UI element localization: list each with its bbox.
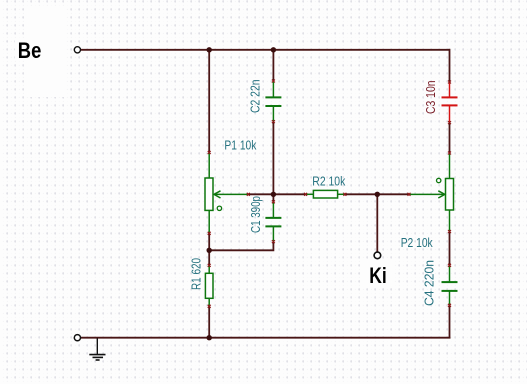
potentiometer P1	[205, 151, 250, 235]
C2 pin marker bottom	[272, 120, 275, 123]
C2 pin marker top	[272, 80, 275, 83]
svg-text:Ki: Ki	[369, 263, 387, 288]
C1 pin marker bottom	[272, 240, 275, 243]
junction node mid rail / C1-C2	[271, 192, 276, 197]
svg-text:C3 10n: C3 10n	[423, 81, 438, 115]
junction node at top rail / P1 branch	[207, 47, 212, 52]
wire bottom rail	[81, 337, 451, 339]
R1 pin marker bottom	[208, 305, 211, 308]
svg-text:C2 22n: C2 22n	[248, 80, 263, 114]
ground	[89, 338, 105, 360]
wire P2 bottom to C4 top	[449, 232, 451, 266]
wire mid junction to C1	[272, 194, 274, 202]
R2 pin marker right	[343, 193, 346, 196]
P1 pin marker wiper	[247, 193, 250, 196]
capacitor C1	[265, 200, 281, 243]
terminal Ki (output)	[374, 252, 381, 259]
P2 pin marker wiper	[408, 193, 411, 196]
capacitor C3 (highlighted red)	[442, 81, 458, 125]
svg-text:R2 10k: R2 10k	[312, 173, 345, 188]
wire right rail upper (corner to C3)	[449, 49, 451, 82]
wire C2 upper stub	[272, 50, 274, 81]
svg-text:C4 220n: C4 220n	[422, 260, 437, 306]
terminal GND (bottom left)	[74, 335, 80, 341]
capacitor C2	[265, 80, 281, 124]
svg-text:Be: Be	[18, 38, 42, 63]
R1 pin marker top	[208, 264, 211, 267]
potentiometer P2	[408, 152, 454, 234]
wire C3 bottom to P2 top	[449, 123, 451, 153]
junction node bottom rail / R1	[207, 335, 212, 340]
junction node P1 bottom / C1 return	[207, 248, 212, 253]
C4 pin marker top	[448, 264, 451, 267]
wire junction to R1 top	[208, 250, 210, 265]
wire R2 to Ki junction	[345, 193, 377, 195]
wire P1 bottom to junction	[208, 233, 210, 250]
R2 pin marker left	[304, 193, 307, 196]
svg-text:C1 390p: C1 390p	[248, 196, 263, 233]
resistor R2	[304, 190, 346, 198]
svg-text:P2 10k: P2 10k	[401, 235, 433, 250]
C3 pin marker top	[448, 81, 451, 84]
wire mid junction to R2	[273, 193, 305, 195]
svg-text:P1 10k: P1 10k	[224, 137, 256, 152]
P1 pin marker top	[208, 151, 211, 154]
P2 pin marker top	[448, 152, 451, 155]
wire P1 wiper to mid junction	[248, 193, 273, 195]
wire R1 bottom to bottom rail	[208, 306, 210, 337]
wire top rail	[81, 49, 450, 51]
wire C2 lower to mid junction	[272, 122, 274, 195]
C4 pin marker bottom	[448, 304, 451, 307]
wire Ki stub	[376, 194, 378, 252]
P2 pin marker bottom	[448, 230, 451, 233]
svg-text:R1 620: R1 620	[189, 258, 204, 290]
capacitor C4	[442, 264, 458, 307]
wire Ki junction to P2 wiper	[377, 193, 409, 195]
junction node at top rail / C2 branch	[271, 47, 276, 52]
wire left branch (top rail to P1)	[208, 50, 210, 153]
P1 pin marker bottom	[208, 232, 211, 235]
wire C4 bottom to bottom rail corner	[449, 305, 451, 337]
C3 pin marker bottom	[448, 121, 451, 124]
terminal Be (input)	[74, 47, 80, 53]
wire C1 bottom to P1 bottom junction	[209, 242, 273, 251]
resistor R1	[205, 264, 213, 308]
C1 pin marker top	[272, 200, 275, 203]
junction node mid rail / Ki stub	[375, 192, 380, 197]
